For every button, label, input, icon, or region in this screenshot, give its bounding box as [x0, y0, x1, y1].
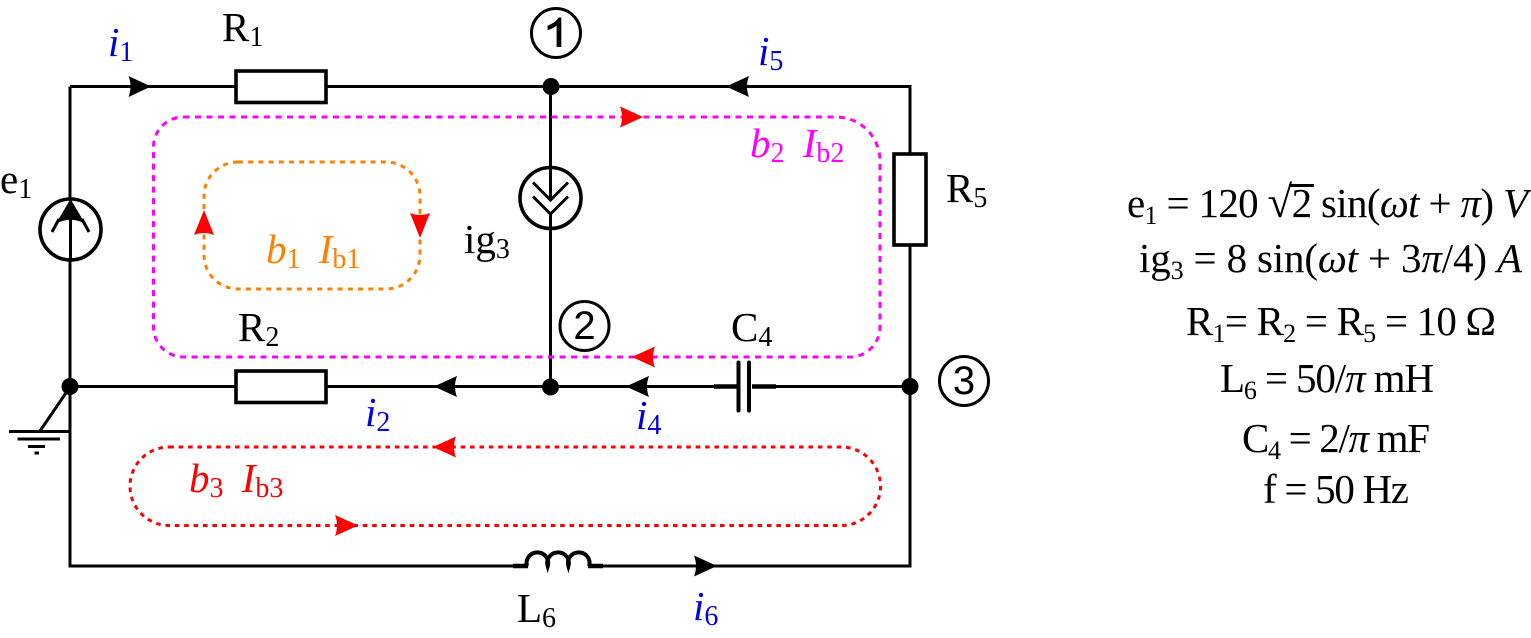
voltage source e1 inner wire: [69, 199, 72, 260]
current source ig3 inner wire upper: [549, 167, 552, 201]
capacitor C4 left plate: [737, 363, 741, 411]
loop b3 arrow top (red, left): [433, 437, 456, 458]
wire top from R1 to node1: [326, 85, 551, 88]
middle wire R2 to node2: [326, 385, 551, 388]
ground bar 2: [18, 438, 61, 441]
resistor R2: [236, 371, 326, 403]
voltage source e1 arrow left leg: [52, 219, 59, 232]
loop b1 arrow right (red, down): [410, 213, 430, 238]
voltage source e1 arrow right leg: [82, 219, 89, 232]
capacitor C4 right lead: [752, 384, 776, 389]
bottom wire left segment: [70, 565, 527, 568]
arrow i6 on bottom wire: [694, 556, 717, 577]
svg-text:e1 = 120 √2 sin(ωt + π) V: e1 = 120 √2 sin(ωt + π) V: [1127, 177, 1531, 230]
svg-text:ig3 = 8 sin(ωt + 3π/4) A: ig3 = 8 sin(ωt + 3π/4) A: [1139, 235, 1523, 285]
ground junction dot: [62, 378, 79, 395]
svg-text:2: 2: [573, 304, 595, 348]
wire top from left corner to R1: [70, 85, 236, 88]
node 2 circle: [560, 302, 609, 351]
resistor R1: [236, 71, 326, 103]
ground bar 4: [35, 452, 40, 455]
loop b3 arrow bottom (red, right): [335, 515, 358, 536]
node 1 junction dot: [543, 78, 560, 95]
svg-text:3: 3: [953, 359, 975, 403]
loop b2 arrow top (red, right): [620, 107, 643, 128]
capacitor C4 right plate: [747, 363, 751, 411]
arrow i4 on middle wire: [626, 376, 649, 397]
ground bar 1: [9, 430, 69, 433]
loop b3 red dashed: [130, 447, 881, 526]
resistor R5: [894, 154, 926, 245]
node 1 circle: [532, 9, 581, 58]
arrow i1 on top wire: [129, 76, 152, 97]
svg-text:f = 50 Hz: f = 50 Hz: [1263, 466, 1409, 512]
node 1 digit: [548, 18, 562, 48]
current source ig3 circle: [520, 168, 581, 229]
arrow i5 on top wire: [726, 76, 749, 97]
wire top from node1 to right corner: [551, 85, 912, 88]
inductor L6 right stub: [588, 564, 603, 569]
voltage source e1 circle: [40, 199, 101, 260]
node 3 junction dot: [902, 378, 919, 395]
middle wire C4 to node3: [752, 385, 910, 388]
middle wire node2 to C4: [551, 385, 738, 388]
svg-text:R1= R2 = R5 = 10 Ω: R1= R2 = R5 = 10 Ω: [1186, 298, 1496, 348]
arrow i2 on middle wire: [434, 376, 457, 397]
current source ig3 chevron 1: [533, 183, 568, 201]
loop b2 magenta dashed: [154, 117, 881, 357]
ground bar 3: [28, 445, 45, 448]
bottom wire right segment: [589, 565, 910, 568]
ground diagonal lead: [40, 387, 70, 431]
current source ig3 inner wire lower: [549, 214, 552, 230]
voltage source e1 arrowhead: [56, 199, 85, 224]
left wire vertical: [69, 87, 72, 568]
middle horizontal wire left segment: [70, 385, 236, 388]
right wire vertical top segment: [909, 87, 912, 155]
middle vertical wire node1 to node2: [549, 87, 552, 389]
node 3 circle: [940, 357, 989, 406]
sqrt overbar line 1: [1289, 184, 1314, 187]
current source ig3 chevron 2: [533, 197, 568, 215]
right wire vertical bottom segment: [909, 245, 912, 568]
loop b2 arrow bottom (red, left): [632, 347, 655, 368]
loop b1 arrow left (red, up): [194, 210, 214, 235]
inductor L6 coil: [527, 552, 590, 566]
capacitor C4 left lead: [714, 384, 737, 389]
loop b1 orange dashed: [204, 162, 420, 289]
inductor L6 left stub: [513, 564, 528, 569]
node 2 junction dot: [542, 379, 559, 396]
